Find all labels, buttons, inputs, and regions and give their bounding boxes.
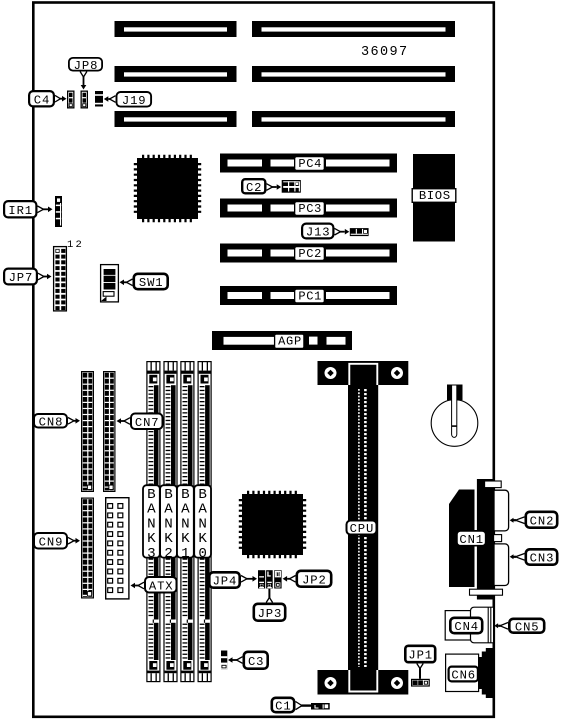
svg-text:B: B: [164, 487, 173, 503]
wire CN5 arrow: [494, 623, 508, 630]
svg-text:C3: C3: [248, 655, 264, 669]
label AGP: [275, 334, 304, 349]
connector JP1 header: [412, 679, 430, 686]
svg-text:0: 0: [198, 546, 207, 562]
wire J13 arrow: [335, 228, 350, 235]
svg-text:JP8: JP8: [74, 59, 99, 73]
wire CN9 arrow: [68, 537, 80, 544]
wire CN8 arrow: [68, 418, 80, 425]
svg-text:CN5: CN5: [515, 620, 540, 634]
label CN8: [34, 414, 67, 429]
svg-text:CN6: CN6: [451, 669, 476, 683]
svg-text:B: B: [181, 487, 190, 503]
wire J19 arrow: [104, 96, 116, 103]
connector JP3 header: [266, 570, 273, 588]
svg-text:CN7: CN7: [135, 416, 160, 430]
connector CN9 header: [82, 498, 94, 598]
svg-text:JP4: JP4: [213, 575, 238, 589]
svg-text:AGP: AGP: [278, 335, 302, 349]
connector JP2 header: [274, 570, 281, 588]
svg-text:PC2: PC2: [298, 247, 322, 261]
wire C2 arrow: [267, 184, 282, 191]
connector CN1 body: [449, 479, 503, 600]
svg-text:ATX: ATX: [149, 579, 174, 593]
label JP7: [4, 269, 37, 286]
wire JP3 tail: [266, 589, 272, 603]
svg-text:J19: J19: [122, 94, 147, 108]
label JP4: [209, 572, 239, 588]
label C3: [244, 652, 268, 669]
label C4: [29, 91, 54, 107]
connector IR1 header: [55, 196, 62, 227]
switch SW1 DIP block: [101, 265, 119, 302]
svg-text:K: K: [164, 531, 173, 547]
connector C2 header: [282, 180, 301, 193]
DIMM socket BANK2: [164, 362, 177, 682]
svg-text:CN1: CN1: [459, 533, 484, 547]
chip U1 chipset: [136, 157, 200, 221]
label BIOS band: [412, 189, 456, 204]
ISA slot row3 left segment: [115, 111, 237, 127]
CPU slot bottom bracket: [318, 670, 409, 695]
svg-text:N: N: [147, 516, 156, 532]
wire JP2 arrow: [283, 576, 296, 583]
svg-text:N: N: [198, 516, 207, 532]
svg-text:A: A: [198, 502, 207, 518]
label CN9: [34, 533, 67, 549]
svg-text:N: N: [164, 516, 173, 532]
label BANK3: [143, 485, 160, 562]
svg-text:12: 12: [67, 239, 84, 251]
svg-text:J13: J13: [306, 226, 331, 240]
connector JP7 header: [54, 247, 67, 311]
svg-text:JP3: JP3: [258, 607, 283, 621]
PCI slot PC1: [220, 286, 397, 305]
battery BT1: [431, 385, 478, 447]
wire JP1 tail: [417, 664, 423, 679]
svg-text:BIOS: BIOS: [419, 189, 451, 203]
svg-text:K: K: [198, 531, 207, 547]
svg-text:JP2: JP2: [302, 573, 327, 587]
svg-text:3: 3: [147, 546, 156, 562]
connector C3 header: [221, 651, 227, 670]
connector JP8 header: [81, 91, 87, 108]
svg-text:JP7: JP7: [9, 271, 34, 285]
connector C1 header: [311, 703, 330, 710]
wire C1 arrow: [296, 702, 312, 710]
svg-text:CN2: CN2: [530, 514, 555, 528]
connector J19 header: [95, 91, 103, 107]
connector ATX power: [106, 498, 129, 599]
connector C4 header: [68, 91, 74, 108]
svg-text:C1: C1: [275, 700, 291, 714]
connector CN7 header: [104, 372, 115, 492]
wire JP7 arrow: [38, 273, 52, 280]
label IR1: [4, 201, 36, 218]
CPU slot body: [348, 385, 378, 671]
label J19: [117, 92, 152, 108]
svg-text:1: 1: [181, 546, 190, 562]
wire JP8 tail: [80, 72, 87, 90]
connector CN3 port: [494, 544, 509, 586]
DIMM socket BANK3: [147, 362, 160, 682]
label BANK1: [177, 485, 194, 562]
label CN5: [509, 619, 544, 635]
label JP3: [254, 604, 285, 621]
ISA slot row2 right segment: [252, 66, 455, 82]
connector CN2 port: [494, 490, 509, 531]
ISA slot row1 left segment: [115, 21, 237, 37]
label CN1: [457, 531, 486, 547]
label JP2: [297, 571, 331, 588]
label CN7: [131, 414, 163, 430]
svg-text:PC4: PC4: [298, 157, 322, 171]
svg-text:CN4: CN4: [454, 620, 479, 634]
svg-text:B: B: [198, 487, 207, 503]
svg-text:PC3: PC3: [298, 202, 322, 216]
PCI slot PC3: [220, 199, 397, 218]
ISA slot row2 left segment: [115, 66, 237, 82]
svg-text:C2: C2: [246, 181, 262, 195]
svg-text:A: A: [181, 502, 190, 518]
label JP8: [69, 58, 102, 73]
svg-text:IR1: IR1: [8, 204, 33, 218]
svg-text:B: B: [147, 487, 156, 503]
label CPU: [347, 521, 377, 537]
label SW1: [134, 274, 168, 290]
label BANK2: [160, 485, 177, 562]
wire C3 arrow: [228, 657, 243, 664]
svg-text:JP1: JP1: [408, 649, 433, 663]
connector CN6 body: [446, 648, 494, 698]
wire C4 arrow: [55, 95, 67, 102]
label CN2: [526, 512, 557, 529]
wire CN7 arrow: [117, 418, 131, 425]
svg-text:SW1: SW1: [139, 276, 164, 290]
svg-text:36097: 36097: [361, 45, 409, 60]
label J13: [302, 224, 333, 240]
wire CN2 arrow: [510, 517, 525, 524]
svg-text:CN9: CN9: [39, 535, 64, 549]
svg-text:K: K: [147, 531, 156, 547]
connector CN8 header: [82, 372, 94, 492]
svg-text:CPU: CPU: [350, 522, 375, 536]
svg-text:K: K: [181, 531, 190, 547]
label CN4: [450, 618, 482, 634]
label C2: [242, 179, 265, 195]
connector CN4 body: [445, 607, 493, 643]
AGP slot: [212, 331, 352, 350]
wire SW1 arrow: [120, 279, 133, 286]
label CN3: [526, 549, 557, 565]
svg-text:N: N: [181, 516, 190, 532]
wire CN3 arrow: [510, 554, 525, 561]
PCI slot PC2: [220, 244, 397, 263]
ISA slot row1 right segment: [252, 21, 455, 37]
label JP1: [405, 646, 435, 663]
svg-text:C4: C4: [34, 93, 50, 107]
wire IR1 arrow: [38, 206, 53, 213]
connector CN1 mid tab: [494, 535, 502, 542]
chip BIOS: [413, 154, 455, 242]
connector J13 header: [350, 228, 369, 236]
DIMM socket BANK1: [181, 362, 194, 682]
svg-text:CN3: CN3: [530, 552, 555, 566]
connector JP4 header: [258, 570, 265, 588]
wire ATX arrow: [131, 582, 145, 589]
svg-text:CN8: CN8: [39, 415, 64, 429]
label CN6: [449, 667, 478, 683]
wire JP4 arrow: [241, 576, 257, 583]
DIMM socket BANK0: [198, 362, 211, 682]
svg-text:2: 2: [164, 546, 173, 562]
label C1: [272, 698, 294, 714]
CPU slot top bracket: [318, 361, 409, 385]
ISA slot row3 right segment: [252, 111, 455, 127]
PCI slot PC4: [220, 154, 397, 173]
svg-text:PC1: PC1: [298, 289, 322, 303]
chip U2 chipset: [241, 493, 305, 557]
svg-text:A: A: [147, 502, 156, 518]
svg-text:A: A: [164, 502, 173, 518]
label ATX: [145, 577, 177, 593]
label BANK0: [194, 485, 211, 562]
